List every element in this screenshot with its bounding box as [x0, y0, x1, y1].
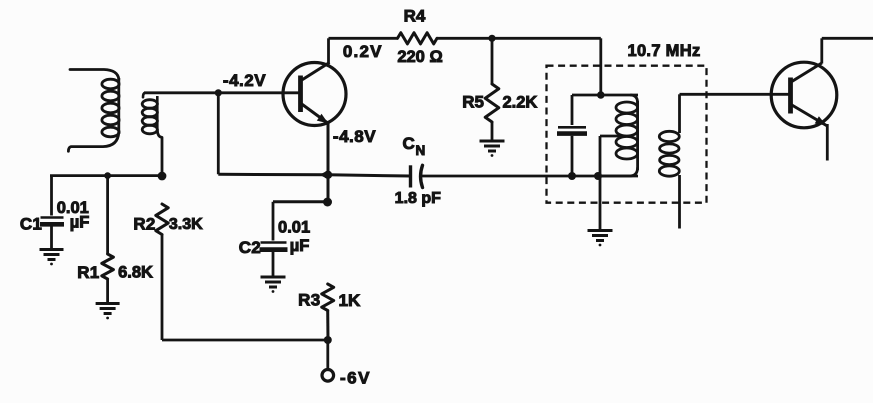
svg-text:C2: C2	[239, 238, 261, 257]
svg-text:µF: µF	[290, 237, 310, 255]
svg-text:2.2K: 2.2K	[503, 94, 538, 112]
svg-text:R4: R4	[404, 7, 426, 26]
svg-text:1K: 1K	[339, 291, 361, 310]
svg-text:R2: R2	[133, 214, 155, 233]
svg-text:10.7 MHz: 10.7 MHz	[627, 42, 700, 60]
svg-text:R3: R3	[298, 290, 320, 309]
svg-text:220 Ω: 220 Ω	[397, 48, 442, 66]
svg-text:C: C	[403, 134, 415, 153]
svg-text:R1: R1	[77, 263, 99, 282]
svg-text:R5: R5	[462, 92, 484, 111]
svg-text:N: N	[416, 143, 426, 158]
svg-text:0.2V: 0.2V	[343, 42, 383, 61]
svg-text:3.3K: 3.3K	[169, 216, 203, 233]
svg-text:-6V: -6V	[340, 369, 371, 388]
svg-text:µF: µF	[70, 214, 90, 232]
svg-text:0.01: 0.01	[278, 218, 310, 236]
svg-text:-4.8V: -4.8V	[333, 127, 376, 146]
svg-text:C1: C1	[20, 214, 42, 233]
svg-text:1.8 pF: 1.8 pF	[395, 190, 441, 207]
svg-text:-4.2V: -4.2V	[223, 71, 266, 90]
svg-text:6.8K: 6.8K	[118, 264, 153, 282]
